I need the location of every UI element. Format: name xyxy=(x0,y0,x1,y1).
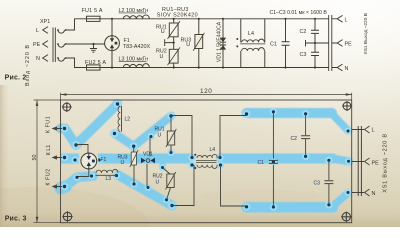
svg-text:VD1 1.5KE440CA: VD1 1.5KE440CA xyxy=(217,21,223,62)
svg-text:К FU1: К FU1 xyxy=(46,116,52,133)
svg-text:U: U xyxy=(186,42,190,48)
svg-text:C1: C1 xyxy=(258,160,265,166)
svg-text:PE: PE xyxy=(372,161,380,167)
svg-text:C1–C3 0.01 мк × 1600 В: C1–C3 0.01 мк × 1600 В xyxy=(270,10,328,16)
svg-text:120: 120 xyxy=(200,88,212,95)
svg-text:FU1 5 A: FU1 5 A xyxy=(82,8,103,14)
svg-text:Т83-А420Х: Т83-А420Х xyxy=(123,44,151,50)
svg-text:Рис. 2: Рис. 2 xyxy=(5,74,27,81)
svg-text:SIOV S20K420: SIOV S20K420 xyxy=(157,13,198,19)
svg-text:L4: L4 xyxy=(248,31,254,37)
svg-text:XS1 Выход ~220 В: XS1 Выход ~220 В xyxy=(383,133,389,193)
svg-text:U: U xyxy=(121,160,125,166)
svg-text:L: L xyxy=(36,28,39,34)
svg-text:F1: F1 xyxy=(124,38,130,44)
svg-text:L2: L2 xyxy=(125,117,131,123)
svg-text:U: U xyxy=(156,180,160,186)
svg-text:L: L xyxy=(372,128,375,134)
svg-text:C3: C3 xyxy=(300,52,307,58)
svg-text:N: N xyxy=(372,191,376,197)
svg-text:N: N xyxy=(345,66,349,72)
svg-text:PE: PE xyxy=(33,42,41,48)
svg-text:N: N xyxy=(36,56,40,62)
svg-text:L: L xyxy=(345,18,348,24)
svg-text:PE: PE xyxy=(345,42,353,48)
svg-text:Рис. 3: Рис. 3 xyxy=(5,216,27,223)
svg-text:U: U xyxy=(158,133,162,139)
svg-text:К FU2: К FU2 xyxy=(46,168,52,185)
svg-text:L4: L4 xyxy=(210,147,216,153)
svg-text:FU2 5 A: FU2 5 A xyxy=(85,60,106,66)
svg-text:U: U xyxy=(160,54,164,60)
svg-text:F1: F1 xyxy=(101,157,107,163)
svg-text:50: 50 xyxy=(32,155,38,161)
svg-text:XS1 Выход ~220 В: XS1 Выход ~220 В xyxy=(363,13,369,54)
svg-text:C1: C1 xyxy=(270,41,277,47)
svg-text:C2: C2 xyxy=(300,29,307,35)
svg-text:C3: C3 xyxy=(314,181,321,187)
svg-text:VD1: VD1 xyxy=(143,152,153,158)
svg-text:C2: C2 xyxy=(291,136,298,142)
svg-text:U: U xyxy=(161,29,165,35)
svg-text:XP1: XP1 xyxy=(40,19,50,25)
svg-text:К L1: К L1 xyxy=(46,145,52,156)
svg-text:L3: L3 xyxy=(106,176,112,182)
